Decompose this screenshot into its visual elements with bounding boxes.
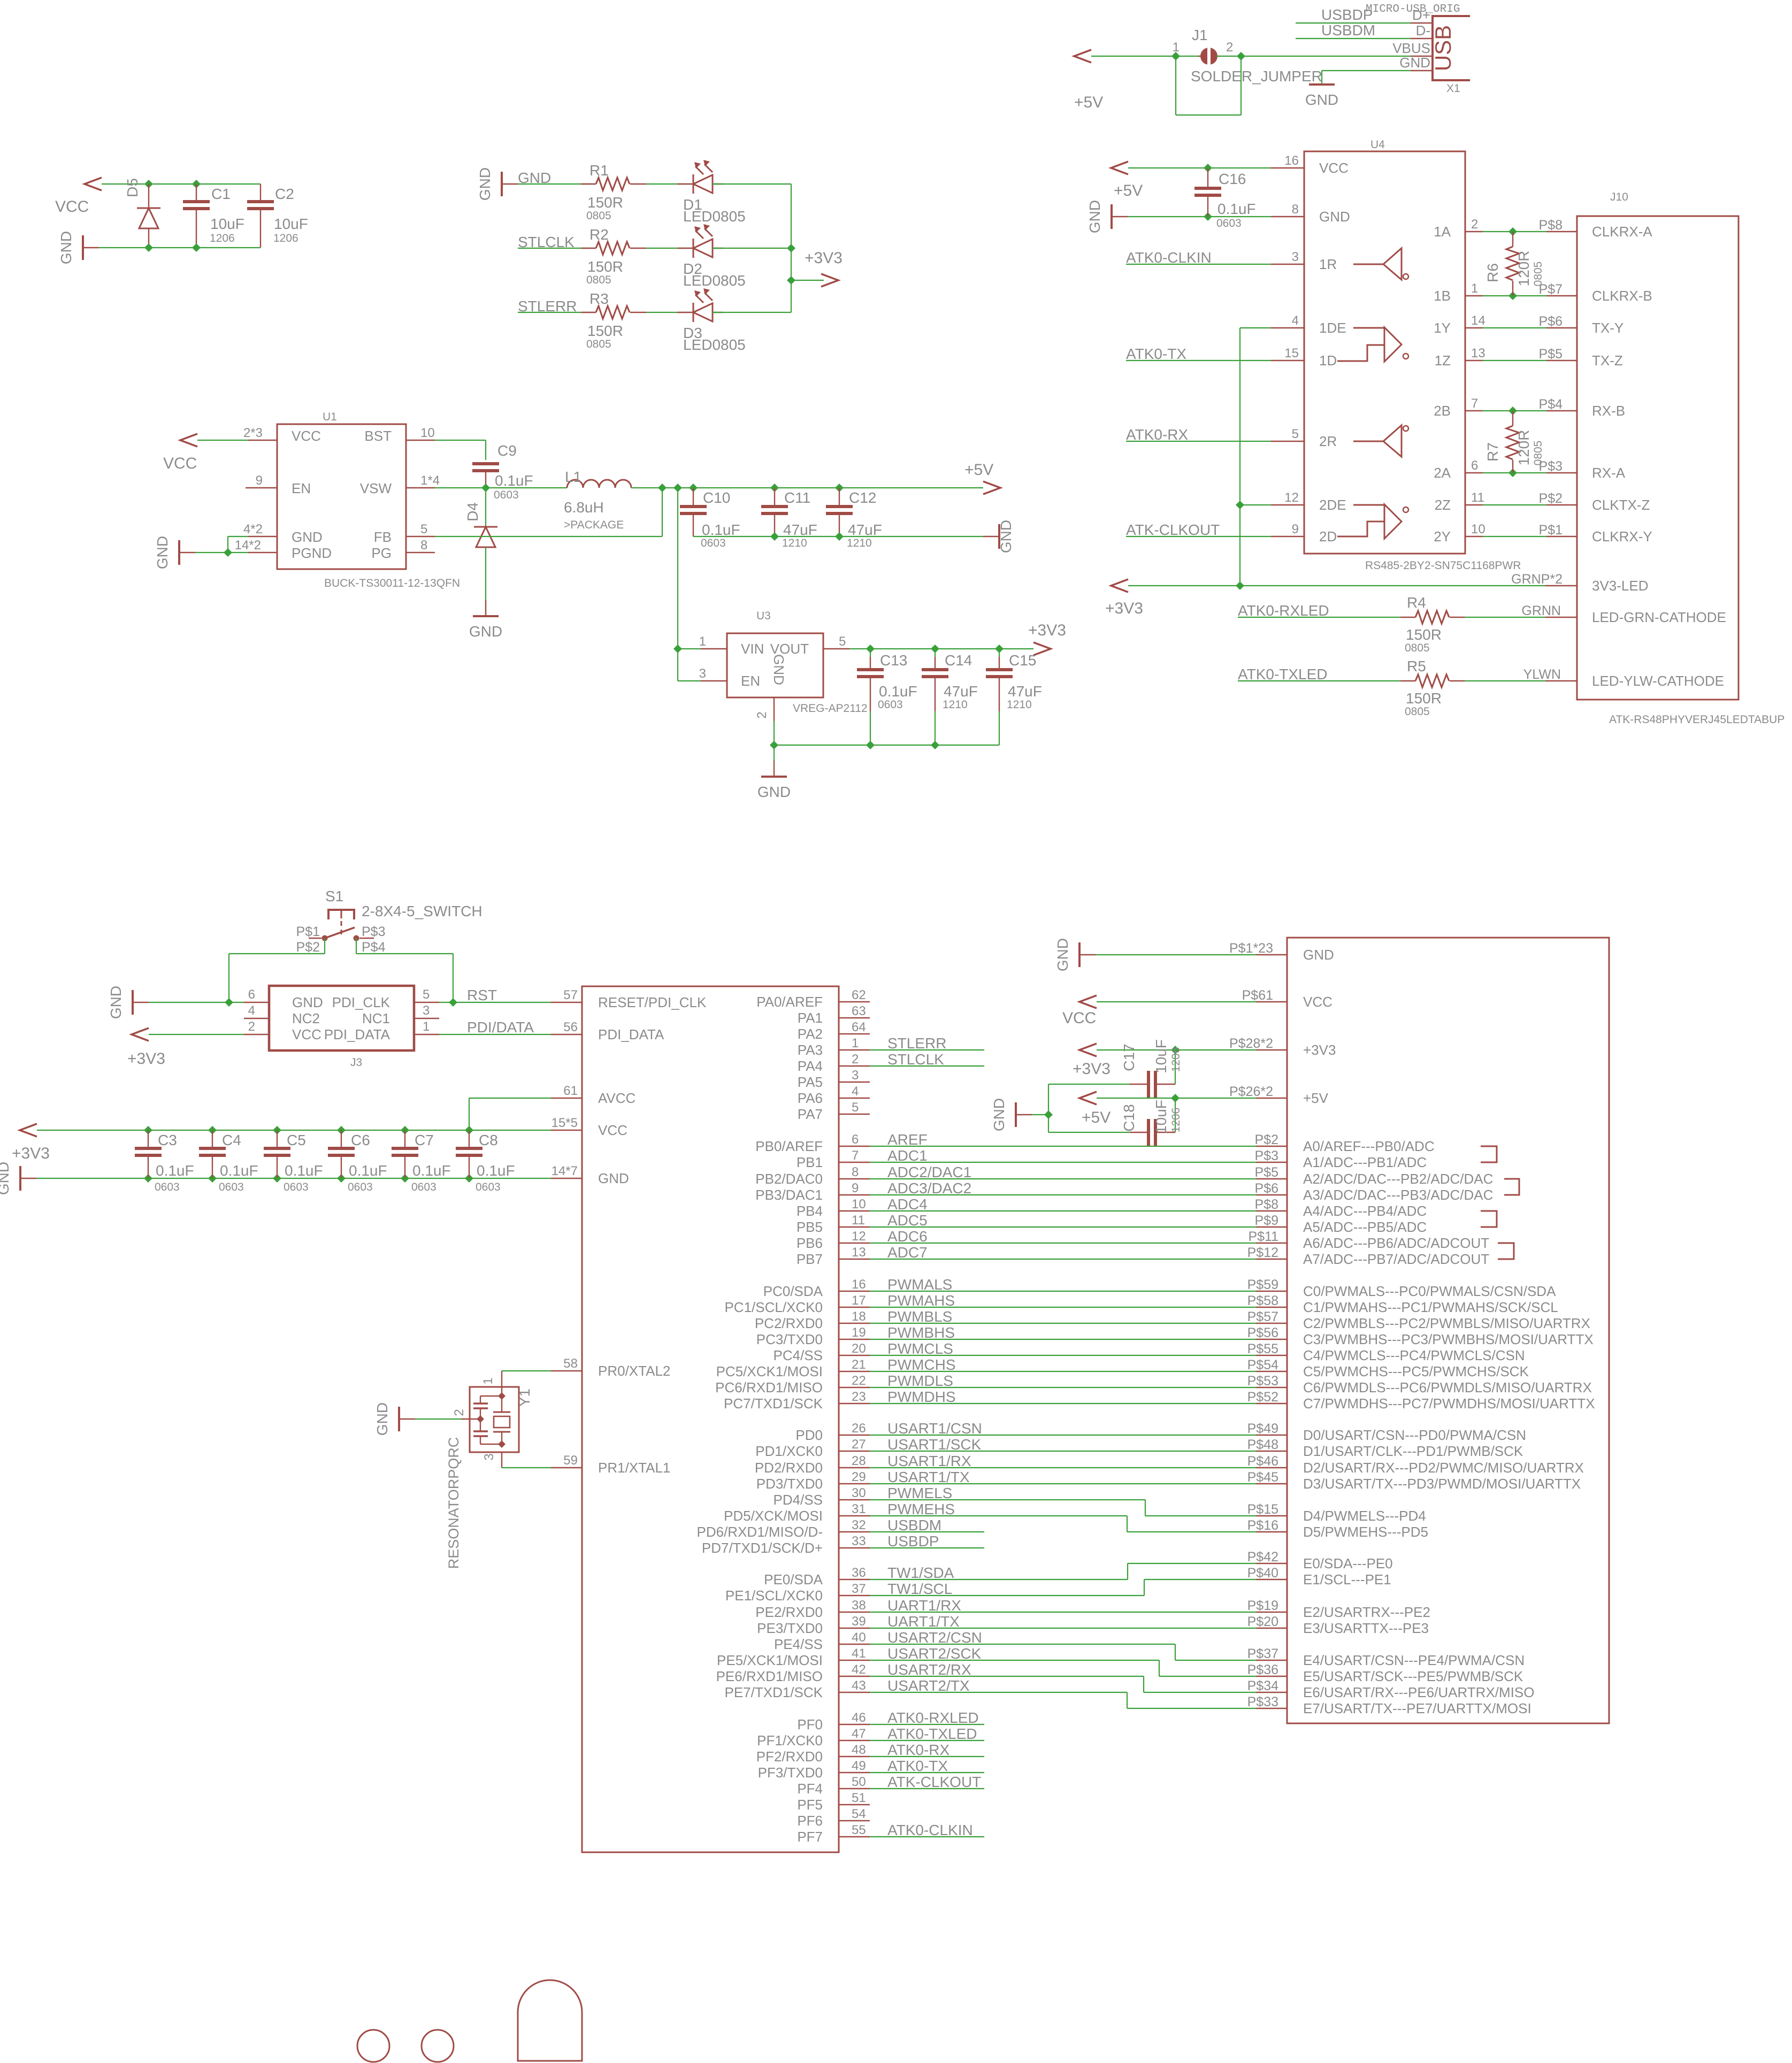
svg-text:29: 29: [852, 1470, 866, 1484]
pin 5 (J3): [414, 1002, 439, 1003]
power net +3V3 arrow (3V3-LED): [1111, 579, 1128, 592]
wire Y1-XTAL2: [501, 1371, 502, 1396]
svg-text:GRNN: GRNN: [1521, 603, 1561, 618]
svg-text:+5V: +5V: [1303, 1090, 1329, 1106]
svg-text:150R: 150R: [1406, 690, 1442, 707]
svg-text:GND: GND: [374, 1402, 390, 1436]
wire GND-GNDpin: [227, 536, 228, 553]
diode D5: [148, 184, 149, 208]
svg-text:1R: 1R: [1319, 256, 1337, 272]
pin 43 PE7/TXD1/SCK (MCU): [839, 1692, 870, 1693]
node gnd-C1718: [1044, 1110, 1053, 1119]
pin 46 PF0 (MCU): [839, 1724, 870, 1725]
svg-text:19: 19: [852, 1325, 866, 1340]
connector J3 box: [269, 986, 414, 1050]
svg-text:2-8X4-5_SWITCH: 2-8X4-5_SWITCH: [362, 903, 483, 919]
pin 3 (J3): [414, 1018, 439, 1019]
svg-text:ATK0-CLKIN: ATK0-CLKIN: [887, 1822, 973, 1838]
svg-text:27: 27: [852, 1437, 866, 1452]
pin 5 2R: [1271, 441, 1304, 442]
svg-text:PG: PG: [371, 545, 392, 561]
pin 11 PB5 (MCU): [839, 1226, 870, 1228]
svg-text:A5/ADC---PB5/ADC: A5/ADC---PB5/ADC: [1303, 1219, 1427, 1235]
node bus-+3V3: [787, 276, 795, 285]
svg-text:C18: C18: [1121, 1104, 1137, 1131]
pin 57 RESET/PDI_CLK: [551, 1002, 582, 1003]
svg-text:18: 18: [852, 1309, 866, 1324]
pin 15*5 VCC: [551, 1130, 582, 1131]
resistor R6 120R: [1512, 232, 1513, 247]
svg-text:40: 40: [852, 1630, 866, 1645]
svg-text:3: 3: [423, 1003, 430, 1018]
wire J1 bypass: [1175, 56, 1176, 115]
svg-text:28: 28: [852, 1454, 866, 1468]
svg-text:P$52: P$52: [1247, 1390, 1278, 1405]
svg-text:8: 8: [1292, 202, 1299, 217]
pin P$33 (connector): [1256, 1708, 1287, 1709]
svg-text:PC0/SDA: PC0/SDA: [763, 1283, 823, 1299]
wire PWMALS: [870, 1291, 1256, 1292]
svg-text:0.1uF: 0.1uF: [1217, 201, 1256, 217]
capacitor C4 0.1uF: [208, 1126, 217, 1134]
svg-text:PD7/TXD1/SCK/D+: PD7/TXD1/SCK/D+: [702, 1540, 823, 1556]
svg-text:PC4/SS: PC4/SS: [774, 1347, 823, 1363]
svg-text:P$1: P$1: [296, 924, 320, 939]
node gndrail-C14: [931, 741, 939, 749]
svg-text:150R: 150R: [587, 194, 623, 211]
node gnd-C11: [770, 532, 779, 541]
svg-text:PF6: PF6: [797, 1813, 823, 1829]
svg-text:5: 5: [423, 987, 430, 1002]
ground GND (U1): [178, 540, 180, 565]
wire D2-bus: [713, 248, 791, 249]
pin 1 PA3 (MCU): [839, 1049, 870, 1050]
svg-text:4: 4: [248, 1003, 255, 1018]
svg-text:PA6: PA6: [798, 1090, 823, 1106]
svg-text:C9: C9: [497, 442, 517, 459]
wire PWMDLS: [870, 1387, 1256, 1388]
svg-text:150R: 150R: [1406, 626, 1442, 643]
svg-text:ATK0-TXLED: ATK0-TXLED: [1238, 666, 1328, 682]
svg-text:ATK0-RXLED: ATK0-RXLED: [1238, 602, 1329, 619]
svg-text:2DE: 2DE: [1319, 497, 1346, 513]
capacitor C8 0.1uF: [465, 1126, 473, 1134]
pin 47 PF1/XCK0 (MCU): [839, 1740, 870, 1741]
svg-text:5: 5: [1292, 427, 1299, 441]
svg-text:+5V: +5V: [1074, 94, 1103, 111]
connector X1 USB box: [1433, 16, 1470, 80]
svg-text:PWMCLS: PWMCLS: [887, 1340, 953, 1357]
pin 42 PE6/RXD1/MISO (MCU): [839, 1676, 870, 1677]
pin 27 PD1/XCK0 (MCU): [839, 1451, 870, 1452]
svg-text:P$16: P$16: [1247, 1518, 1278, 1533]
pin 16 PC0/SDA (MCU): [839, 1291, 870, 1292]
pin 22 PC6/RXD1/MISO (MCU): [839, 1387, 870, 1388]
pin 5 PA7 (MCU): [839, 1114, 870, 1115]
svg-text:PB4: PB4: [797, 1203, 823, 1219]
svg-text:P$37: P$37: [1247, 1646, 1278, 1661]
svg-text:P$54: P$54: [1247, 1358, 1278, 1372]
pin 8 GND: [1271, 216, 1304, 217]
wire U4-CLKRX-A: [1483, 231, 1546, 232]
svg-text:13: 13: [852, 1245, 866, 1260]
pin 8 PB2/DAC0 (MCU): [839, 1178, 870, 1179]
svg-text:R6: R6: [1484, 263, 1501, 282]
svg-text:PWMELS: PWMELS: [887, 1485, 952, 1501]
capacitor C1: [196, 184, 197, 201]
svg-text:C0/PWMALS---PC0/PWMALS/CSN/SDA: C0/PWMALS---PC0/PWMALS/CSN/SDA: [1303, 1283, 1556, 1299]
node +5V-C18: [1171, 1094, 1180, 1102]
wire USART2/RX jog: [870, 1676, 1144, 1677]
node VCC-D5: [144, 180, 153, 188]
pin P$46 (connector): [1256, 1467, 1287, 1468]
svg-text:22: 22: [852, 1374, 866, 1388]
svg-text:D2/USART/RX---PD2/PWMC/MISO/UA: D2/USART/RX---PD2/PWMC/MISO/UARTRX: [1303, 1460, 1584, 1476]
svg-text:VIN: VIN: [741, 641, 764, 657]
power net +5V arrow (U4): [1111, 162, 1128, 174]
svg-text:RESET/PDI_CLK: RESET/PDI_CLK: [598, 994, 707, 1010]
svg-text:PWMAHS: PWMAHS: [887, 1292, 955, 1309]
resistor R2 150R: [581, 248, 596, 249]
capacitor C11 47uF: [774, 488, 775, 506]
svg-text:PC3/TXD0: PC3/TXD0: [756, 1331, 823, 1347]
pin P$53 (connector): [1256, 1387, 1287, 1388]
wire VSW: [435, 487, 567, 488]
svg-text:3: 3: [852, 1068, 859, 1083]
wire ATK0-TXLED: [1238, 680, 1400, 681]
svg-text:D0/USART/CSN---PD0/PWMA/CSN: D0/USART/CSN---PD0/PWMA/CSN: [1303, 1427, 1526, 1443]
node gnd-C12: [835, 532, 844, 541]
svg-text:PWMDHS: PWMDHS: [887, 1389, 956, 1405]
svg-text:47uF: 47uF: [783, 521, 817, 538]
bracket A4/A5: [1481, 1211, 1497, 1227]
svg-text:56: 56: [563, 1020, 578, 1034]
wire U4-CLKTX-Z: [1483, 504, 1546, 505]
svg-text:C2: C2: [275, 186, 294, 202]
svg-text:150R: 150R: [587, 323, 623, 339]
wire ATK0-CLKIN stub: [870, 1836, 984, 1837]
pin 59 PR1/XTAL1: [551, 1467, 582, 1468]
svg-text:1Y: 1Y: [1434, 320, 1451, 336]
svg-text:PC6/RXD1/MISO: PC6/RXD1/MISO: [715, 1379, 823, 1395]
svg-text:10uF: 10uF: [1153, 1039, 1169, 1073]
svg-text:PGND: PGND: [292, 545, 332, 561]
receiver symbol 1R: [1353, 248, 1402, 280]
svg-text:16: 16: [852, 1277, 866, 1292]
svg-text:CLKRX-Y: CLKRX-Y: [1592, 528, 1652, 544]
svg-text:E2/USARTRX---PE2: E2/USARTRX---PE2: [1303, 1604, 1430, 1620]
svg-text:10uF: 10uF: [274, 216, 308, 232]
svg-text:BST: BST: [364, 428, 392, 444]
svg-text:150R: 150R: [587, 258, 623, 275]
svg-text:1206: 1206: [1170, 1108, 1182, 1133]
svg-text:PR0/XTAL2: PR0/XTAL2: [598, 1363, 670, 1379]
pin 10 (U4 right): [1465, 536, 1483, 537]
wire U4-RX-A: [1483, 472, 1546, 473]
svg-text:USB: USB: [1430, 25, 1456, 71]
wire PWMBHS: [870, 1339, 1256, 1340]
svg-text:2*3: 2*3: [243, 426, 263, 440]
wire D3-bus: [713, 312, 791, 313]
IC U1 BUCK-TS30011-12-13QFN box: [277, 424, 406, 569]
pin P$36 (connector): [1256, 1676, 1287, 1677]
wire USART1/SCK: [870, 1451, 1256, 1452]
svg-text:P$49: P$49: [1247, 1421, 1278, 1436]
svg-text:10uF: 10uF: [210, 216, 244, 232]
svg-text:VCC: VCC: [598, 1122, 627, 1138]
pin 18 PC2/RXD0 (MCU): [839, 1323, 870, 1324]
svg-text:VCC: VCC: [163, 455, 197, 472]
svg-text:VCC: VCC: [1303, 994, 1332, 1010]
svg-text:P$3: P$3: [362, 924, 385, 939]
svg-text:PA1: PA1: [798, 1010, 823, 1026]
svg-text:3: 3: [699, 666, 706, 681]
svg-text:P$1*23: P$1*23: [1229, 941, 1273, 956]
svg-text:PF1/XCK0: PF1/XCK0: [757, 1732, 823, 1748]
capacitor C13 0.1uF: [870, 649, 871, 657]
svg-text:P$58: P$58: [1247, 1293, 1278, 1308]
svg-text:4: 4: [852, 1084, 859, 1099]
svg-text:2D: 2D: [1319, 528, 1337, 544]
wire PDI/DATA: [439, 1034, 551, 1035]
wire GND-J3: [149, 1002, 244, 1003]
svg-text:ADC4: ADC4: [887, 1196, 928, 1213]
svg-text:BUCK-TS30011-12-13QFN: BUCK-TS30011-12-13QFN: [324, 577, 460, 589]
pin 17 PC1/SCL/XCK0 (MCU): [839, 1307, 870, 1308]
wire gnd-C1718: [1032, 1114, 1048, 1115]
wire +3V3-J3: [149, 1034, 244, 1035]
pin 8 PG: [406, 552, 435, 553]
node 3V3-1DE: [1236, 581, 1244, 590]
wire USART2/SCK jog: [870, 1660, 1159, 1661]
svg-text:3: 3: [1292, 250, 1299, 264]
wire GND-PGND: [195, 552, 248, 553]
svg-text:2: 2: [852, 1052, 859, 1067]
wire USBDP stub: [870, 1547, 984, 1548]
pin 23 PC7/TXD1/SCK (MCU): [839, 1403, 870, 1404]
svg-text:C5/PWMCHS---PC5/PWMCHS/SCK: C5/PWMCHS---PC5/PWMCHS/SCK: [1303, 1363, 1529, 1379]
pin 39 PE3/TXD0 (MCU): [839, 1628, 870, 1629]
pin P$28*2 +3V3: [1256, 1049, 1287, 1050]
bracket A0/A1: [1481, 1146, 1497, 1162]
wire USBDM: [1296, 38, 1411, 39]
svg-text:AVCC: AVCC: [598, 1090, 635, 1106]
wire Y1 gnd: [415, 1418, 461, 1420]
svg-text:0805: 0805: [586, 210, 611, 222]
svg-text:VCC: VCC: [55, 198, 89, 216]
node GND-D5: [144, 243, 153, 252]
pin 36 PE0/SDA (MCU): [839, 1579, 870, 1580]
wire GND-connector: [1096, 954, 1256, 955]
svg-text:2B: 2B: [1434, 403, 1451, 419]
wire ADC2/DAC1: [870, 1178, 1256, 1179]
power net +5V arrow (USB): [1074, 50, 1091, 63]
resistor R5 150R: [1400, 680, 1415, 681]
svg-text:R7: R7: [1484, 442, 1501, 462]
svg-text:STLERR: STLERR: [887, 1035, 946, 1052]
wire STLERR stub: [870, 1049, 984, 1050]
pin P$16 (connector): [1256, 1531, 1287, 1532]
svg-text:36: 36: [852, 1566, 866, 1580]
capacitor C9 0.1uF: [472, 462, 499, 465]
svg-text:J1: J1: [1192, 27, 1208, 43]
wire ATK0-RX stub: [870, 1756, 984, 1757]
wire STLCLK stub: [870, 1065, 984, 1067]
wire U4-RX-B: [1483, 410, 1546, 411]
power net +3V3 arrow (connector): [1079, 1044, 1097, 1056]
node +5V-C10: [689, 484, 698, 492]
svg-text:ATK0-TX: ATK0-TX: [887, 1758, 948, 1774]
svg-text:P$48: P$48: [1247, 1437, 1278, 1452]
svg-text:VCC: VCC: [1062, 1009, 1096, 1027]
svg-text:0603: 0603: [1216, 217, 1242, 229]
svg-text:9: 9: [256, 473, 263, 488]
svg-text:R1: R1: [589, 162, 609, 179]
svg-text:6: 6: [1471, 458, 1478, 473]
pin 6 PB0/AREF (MCU): [839, 1146, 870, 1147]
pin P$7 CLKRX-B (J10): [1546, 295, 1577, 296]
svg-text:L1: L1: [565, 469, 581, 485]
node VSW-C9: [481, 484, 490, 492]
svg-text:C1/PWMAHS---PC1/PWMAHS/SCK/SCL: C1/PWMAHS---PC1/PWMAHS/SCK/SCL: [1303, 1299, 1558, 1315]
svg-text:2: 2: [1226, 40, 1233, 55]
svg-text:42: 42: [852, 1662, 866, 1677]
svg-text:2Y: 2Y: [1434, 528, 1451, 544]
pin 3 EN: [701, 680, 727, 681]
svg-text:47uF: 47uF: [1008, 683, 1042, 700]
pin 6 (U4 right): [1465, 472, 1483, 473]
pin 14*2 PGND: [248, 552, 277, 553]
svg-text:14*7: 14*7: [552, 1164, 578, 1178]
power net +3V3 arrow (VCC rail): [20, 1124, 37, 1137]
wire AVCC: [469, 1098, 551, 1099]
wire U4-TX-Y: [1483, 327, 1546, 328]
pin P$6 (connector): [1256, 1194, 1287, 1195]
svg-text:15: 15: [1284, 346, 1299, 361]
capacitor C12 47uF: [839, 488, 840, 506]
svg-text:PE7/TXD1/SCK: PE7/TXD1/SCK: [724, 1684, 823, 1700]
pin P$5 TX-Z (J10): [1546, 360, 1577, 361]
svg-text:50: 50: [852, 1775, 866, 1789]
wire VCC rail: [102, 183, 261, 185]
svg-text:+3V3: +3V3: [127, 1050, 165, 1068]
svg-text:C4/PWMCLS---PC4/PWMCLS/CSN: C4/PWMCLS---PC4/PWMCLS/CSN: [1303, 1347, 1525, 1363]
wire USART1/TX: [870, 1483, 1256, 1484]
svg-text:P$20: P$20: [1247, 1614, 1278, 1629]
node 2DE: [1236, 501, 1244, 509]
svg-text:0.1uF: 0.1uF: [156, 1162, 194, 1179]
solder jumper J1: [1200, 48, 1217, 65]
svg-text:1210: 1210: [847, 537, 872, 549]
wire D1-bus: [713, 183, 791, 185]
svg-text:PB7: PB7: [797, 1251, 823, 1267]
svg-text:PB1: PB1: [797, 1154, 823, 1170]
svg-text:2R: 2R: [1319, 433, 1337, 449]
capacitor C6 0.1uF: [337, 1126, 346, 1134]
svg-text:P$3: P$3: [1255, 1148, 1278, 1163]
pin P$54 (connector): [1256, 1371, 1287, 1372]
svg-text:A2/ADC/DAC---PB2/ADC/DAC: A2/ADC/DAC---PB2/ADC/DAC: [1303, 1171, 1493, 1187]
svg-text:1210: 1210: [1007, 699, 1032, 711]
svg-text:P$59: P$59: [1247, 1277, 1278, 1292]
wire VCC rail: [37, 1130, 551, 1131]
svg-text:CLKTX-Z: CLKTX-Z: [1592, 497, 1650, 513]
svg-text:ADC6: ADC6: [887, 1228, 928, 1245]
svg-text:PE0/SDA: PE0/SDA: [764, 1571, 823, 1587]
pin P$55 (connector): [1256, 1355, 1287, 1356]
svg-text:CLKRX-B: CLKRX-B: [1592, 288, 1652, 304]
pin P$52 (connector): [1256, 1403, 1287, 1404]
node +5V-C12: [835, 484, 844, 492]
pin 2*3 VCC: [248, 440, 277, 441]
svg-text:D1/USART/CLK---PD1/PWMB/SCK: D1/USART/CLK---PD1/PWMB/SCK: [1303, 1443, 1523, 1459]
svg-text:P$11: P$11: [1248, 1229, 1278, 1244]
node VOUT-C15: [995, 645, 1004, 653]
pin 54 PF6 (MCU): [839, 1820, 870, 1821]
svg-text:10uF: 10uF: [1153, 1100, 1169, 1134]
svg-text:12: 12: [1284, 490, 1299, 505]
pin P$57 (connector): [1256, 1323, 1287, 1324]
svg-text:16: 16: [1284, 154, 1299, 168]
ground GND (top-left): [82, 235, 84, 260]
pin P$3 RX-A (J10): [1546, 472, 1577, 473]
svg-text:C1: C1: [211, 186, 231, 202]
pin 21 PC5/XCK1/MOSI (MCU): [839, 1371, 870, 1372]
inductor L1 6.8uH: [567, 480, 631, 488]
pin 1 VIN: [701, 648, 727, 649]
node R6 top: [1508, 227, 1517, 236]
svg-text:PF0: PF0: [797, 1716, 823, 1732]
svg-text:USART2/TX: USART2/TX: [887, 1677, 970, 1694]
svg-text:0603: 0603: [411, 1181, 436, 1193]
svg-text:GND: GND: [998, 520, 1014, 553]
bracket A6/A7: [1498, 1243, 1514, 1259]
pin 9 PB3/DAC1 (MCU): [839, 1194, 870, 1195]
svg-text:1Z: 1Z: [1435, 352, 1451, 369]
wire USART2/CSN jog: [870, 1644, 1175, 1645]
svg-text:GND: GND: [991, 1098, 1007, 1131]
svg-text:C13: C13: [880, 652, 907, 669]
svg-text:P$34: P$34: [1247, 1678, 1278, 1693]
svg-text:P$5: P$5: [1539, 347, 1563, 362]
svg-text:1210: 1210: [943, 699, 968, 711]
svg-text:0603: 0603: [878, 699, 903, 711]
pin 1 (U4 right): [1465, 295, 1483, 296]
svg-text:0.1uF: 0.1uF: [702, 521, 740, 538]
svg-text:0805: 0805: [586, 274, 611, 286]
svg-text:PB2/DAC0: PB2/DAC0: [755, 1171, 823, 1187]
pin 4*2 GND: [248, 536, 277, 537]
node GND-U1: [224, 548, 232, 557]
wire +3V3-connector: [1097, 1049, 1256, 1050]
node VOUT-C13: [866, 645, 875, 653]
svg-text:P$33: P$33: [1247, 1694, 1278, 1709]
svg-text:62: 62: [852, 988, 866, 1002]
svg-text:PWMEHS: PWMEHS: [887, 1501, 955, 1517]
svg-text:CLKRX-A: CLKRX-A: [1592, 224, 1652, 240]
capacitor C15 47uF: [999, 649, 1000, 657]
svg-text:UART1/TX: UART1/TX: [887, 1613, 960, 1630]
wire U3 gnd: [774, 721, 775, 745]
svg-text:USART2/CSN: USART2/CSN: [887, 1629, 982, 1646]
diode D4: [485, 488, 486, 527]
wire Y1-XTAL1: [501, 1452, 502, 1468]
wire VCC-connector: [1097, 1001, 1256, 1002]
svg-text:10: 10: [1471, 522, 1485, 536]
svg-text:1: 1: [852, 1036, 859, 1050]
wire U4-CLKRX-Y: [1483, 536, 1546, 537]
driver symbol 2DE/2D: [1337, 504, 1402, 539]
